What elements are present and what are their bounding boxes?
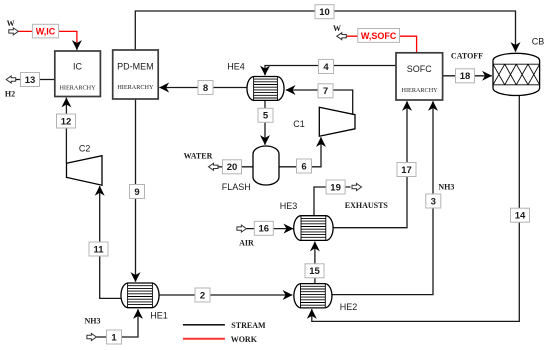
svg-text:HE4: HE4 [227,62,245,72]
svg-text:NH3: NH3 [438,182,454,191]
svg-text:SOFC: SOFC [407,64,433,74]
svg-text:8: 8 [203,83,208,94]
svg-text:HE2: HE2 [340,302,358,312]
stream box 2 [195,288,210,302]
stream box 13 [21,73,40,87]
svg-text:IC: IC [73,61,83,71]
svg-text:4: 4 [323,62,329,73]
block IC U1 [55,51,101,97]
wire stream 11 HE1 to C2 [100,186,121,298]
heat exchanger HE3 [280,201,333,240]
stream box 6 [297,159,312,173]
feed glyph AIR [237,225,254,248]
compressor C1 [293,107,355,136]
stream box 7 [318,84,333,98]
wire stream 14 CB to HE2 [312,96,520,322]
svg-text:C2: C2 [79,144,91,154]
svg-text:W: W [7,19,15,28]
svg-text:6: 6 [301,161,306,172]
svg-text:5: 5 [263,111,269,122]
svg-text:W,IC: W,IC [36,27,56,37]
legend work line [183,335,258,344]
wire stream 3 HE2 to SOFC [332,101,433,294]
stream box 19 [326,180,345,194]
svg-text:NH3: NH3 [85,317,101,326]
stream box 4 [319,60,334,74]
wire stream 8 HE4 to PD-MEM [159,87,247,89]
compressor C2 [67,144,103,186]
product glyph EXHAUSTS [345,184,389,211]
wire stream 20 FLASH to WATER [215,166,253,168]
heat exchanger HE4 [227,62,284,101]
svg-text:1: 1 [111,332,117,343]
wire stream 7 C1 to HE4 [286,90,353,114]
heat exchanger HE2 [294,284,357,312]
svg-text:HIERARCHY: HIERARCHY [402,87,439,94]
svg-text:PD-MEM: PD-MEM [117,62,154,72]
stream box 18 [456,69,475,83]
svg-text:19: 19 [330,182,341,193]
wire work W.SOFC red [345,36,417,53]
svg-text:CATOFF: CATOFF [451,52,483,61]
legend stream line [183,321,266,330]
svg-text:W: W [333,24,341,33]
svg-text:18: 18 [460,71,471,82]
svg-text:13: 13 [25,75,36,86]
svg-text:H2: H2 [5,90,15,99]
product glyph H2 [5,76,16,99]
node label CATOFF [451,52,483,61]
stream box 12 [57,114,76,128]
wire stream 4 SOFC to HE4 [265,66,396,76]
stream box 1 [107,330,122,344]
product glyph WATER [184,152,218,171]
stream box 14 [511,208,530,222]
svg-text:HE1: HE1 [150,311,168,321]
stream box 15 [305,264,324,278]
svg-text:15: 15 [309,266,320,277]
svg-text:3: 3 [431,196,436,207]
svg-text:C1: C1 [293,119,305,129]
svg-text:14: 14 [515,211,526,222]
svg-text:AIR: AIR [239,239,254,248]
svg-text:FLASH: FLASH [222,182,251,192]
product glyph W work output SOFC [333,24,346,40]
wire stream 2 HE1 to HE2 [160,294,293,296]
svg-text:HE3: HE3 [280,201,298,211]
svg-text:17: 17 [401,165,412,176]
svg-text:2: 2 [200,290,205,301]
svg-text:WATER: WATER [184,152,213,161]
work box W,SOFC [358,29,400,43]
wire stream 5 HE4 to FLASH [264,100,266,144]
stream box 11 [89,242,108,256]
stream box 5 [258,108,273,122]
svg-text:WORK: WORK [231,335,258,344]
stream box 8 [198,81,213,95]
svg-text:HIERARCHY: HIERARCHY [59,84,96,91]
svg-text:STREAM: STREAM [231,321,266,330]
svg-text:9: 9 [134,187,139,198]
svg-text:20: 20 [227,162,238,173]
wire stream 13 IC to H2 [13,79,55,81]
block PD-MEM U2 [113,50,159,99]
node label NH3 right [438,182,454,191]
stream box 16 [254,221,273,235]
wire stream 16 AIR to HE3 [246,228,293,230]
wire stream 17 HE3 to SOFC [333,101,407,228]
feed glyph NH3 [85,317,101,341]
svg-text:7: 7 [323,86,328,97]
wire stream 1 NH3 to HE1 [96,309,138,337]
svg-text:12: 12 [61,116,72,127]
stream box 17 [397,163,416,177]
svg-text:EXHAUSTS: EXHAUSTS [345,201,389,210]
combustor CB [493,36,544,95]
heat exchanger HE1 [121,283,168,321]
stream box 10 [315,5,334,19]
stream box 9 [130,185,145,199]
wire stream 12 C2 to IC [65,98,67,164]
svg-text:CB: CB [532,36,545,46]
block SOFC U3 [396,53,443,100]
flash drum FLASH [222,146,279,192]
wire stream 6 FLASH to C1 [279,137,321,167]
feed glyph W work input [7,19,19,35]
stream box 3 [426,194,441,208]
svg-text:10: 10 [319,7,330,18]
svg-text:HIERARCHY: HIERARCHY [117,84,154,91]
svg-text:W,SOFC: W,SOFC [361,31,397,41]
wire stream 18 SOFC to CB [443,75,492,77]
svg-text:11: 11 [93,244,104,255]
wire stream 9 PD-MEM to HE1 [135,99,137,282]
wire work W.IC red [18,31,77,49]
stream box 20 [223,160,242,174]
wire stream 15 HE2 to HE3 [314,242,316,284]
work box W,IC [32,24,58,38]
wire stream 19 HE3 to EXHAUSTS [314,187,351,216]
wire stream 10 PD-MEM to CB [135,11,515,52]
svg-text:16: 16 [259,224,270,235]
